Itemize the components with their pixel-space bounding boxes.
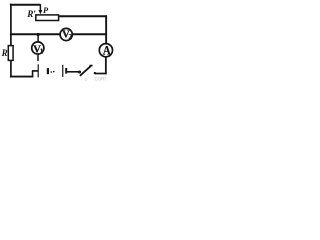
svg-text:A: A (103, 43, 111, 57)
svg-text:com: com (95, 77, 106, 83)
wire bottom-right horizontal (95, 73, 107, 75)
node junction dot (37, 33, 40, 36)
switch right contact (94, 72, 96, 74)
ammeter A (99, 43, 112, 57)
svg-text:o′: o′ (85, 77, 89, 83)
wire bottom step vertical (32, 71, 34, 78)
wire middle horizontal (10, 33, 106, 35)
slider arrow P of rheostat (38, 4, 42, 14)
rheostat R' body (36, 15, 59, 21)
switch lever tip (89, 65, 92, 67)
wire right rail lower (105, 57, 107, 74)
svg-text:1: 1 (40, 48, 44, 56)
battery ellipsis dots (50, 71, 54, 73)
battery cell 1 short plate (47, 68, 49, 74)
svg-text:R′: R′ (26, 9, 36, 19)
resistor R body (8, 46, 13, 61)
voltmeter V2 (60, 28, 72, 41)
battery cell 2 long plate (62, 65, 64, 77)
voltmeter V1 (32, 42, 44, 56)
wire to battery (32, 70, 38, 72)
wire battery to switch (67, 71, 79, 73)
wire top-left horizontal (10, 4, 41, 6)
wire top-right horizontal (59, 15, 107, 17)
switch lever (80, 66, 91, 76)
wire V1 stub top (37, 34, 39, 41)
wire left rail (10, 4, 12, 78)
wire right rail upper (105, 15, 107, 43)
svg-text:R: R (1, 48, 8, 58)
switch left contact (78, 71, 81, 74)
svg-text:2: 2 (69, 33, 73, 41)
wire bottom-left horizontal (10, 76, 33, 78)
battery cell 2 short plate (65, 68, 67, 74)
svg-text:P: P (43, 6, 49, 15)
battery cell 1 long plate (37, 64, 39, 77)
wire V1 stub bottom (37, 55, 39, 61)
